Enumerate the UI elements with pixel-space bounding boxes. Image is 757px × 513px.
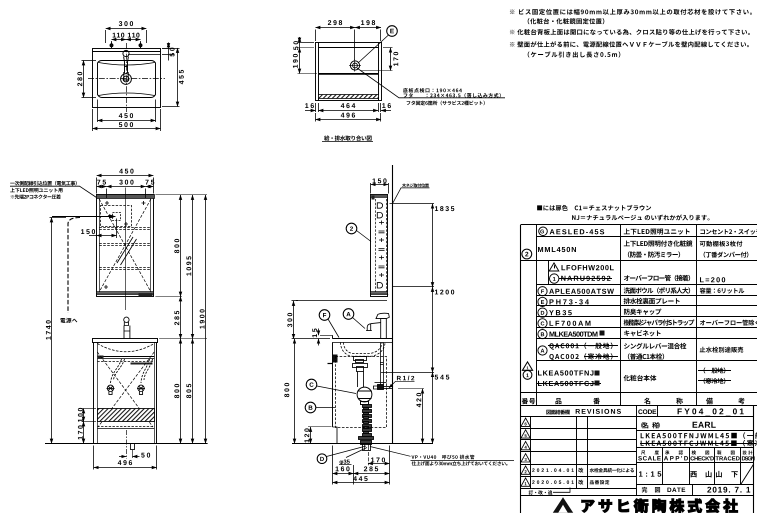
date value (707, 487, 750, 493)
part MML450N (538, 247, 576, 252)
front rail lines (97, 356, 154, 358)
dim 170 right (361, 48, 393, 71)
tri 3 (525, 458, 527, 461)
date label en (667, 488, 685, 492)
inspection port note (403, 88, 462, 93)
callout E letter (390, 29, 394, 34)
inner verticals (99, 199, 101, 292)
dim 496 front (118, 460, 132, 465)
dim 500 plan (119, 122, 133, 127)
basin rim (98, 61, 156, 98)
wall hinge blocks (372, 196, 375, 200)
remark row 2 (700, 241, 743, 247)
dim 150 front (81, 229, 95, 234)
mirror cabinet side (371, 195, 388, 297)
checker name a (690, 471, 696, 477)
piping layout plan (top-middle) (298, 26, 506, 142)
inner side walls (318, 43, 320, 102)
dim 16 left (305, 103, 314, 108)
remark L=200 (700, 277, 725, 282)
scale value (639, 471, 661, 476)
column lines (520, 225, 522, 513)
top cap band (97, 195, 155, 199)
callout C letter (310, 382, 314, 386)
dim 120 (308, 427, 332, 444)
dim 455 (179, 70, 184, 84)
company name Asahi Eito (582, 499, 738, 513)
dim 110 110 (112, 40, 141, 44)
part QAC001 (549, 343, 612, 350)
trap pipes dashed (111, 359, 153, 383)
drain fitting stack (353, 357, 368, 388)
part QAC002 (549, 353, 612, 360)
dim 170 left (83, 422, 85, 444)
dim 50 piping (293, 41, 298, 50)
dim 110 left (113, 33, 125, 38)
note 2 (510, 29, 750, 35)
number circles (522, 249, 532, 259)
rev6 kai (579, 480, 584, 485)
name plate (624, 298, 680, 304)
plus marks (104, 201, 146, 289)
note 1b (528, 18, 605, 24)
remark bowl (700, 288, 745, 294)
traced kanji (717, 450, 735, 454)
DSGN diagonal (741, 464, 754, 485)
header hinban (555, 398, 599, 404)
name cap (624, 309, 661, 315)
row G letter (540, 229, 544, 233)
row B letter (541, 332, 544, 336)
right extension lines (155, 195, 207, 339)
floor line (45, 443, 208, 445)
dim 285 (174, 311, 179, 325)
dim 50 (top right) (162, 43, 174, 61)
height 545 (435, 375, 450, 380)
dim 280 left (82, 61, 97, 98)
dim 120 (304, 428, 309, 442)
bottom board (97, 426, 154, 428)
name faucet 2 (628, 353, 664, 359)
door handle side (333, 355, 338, 363)
arrow into knockout (52, 216, 115, 218)
drain pipe note (411, 455, 474, 459)
callout A (343, 309, 365, 329)
name label (641, 422, 660, 428)
back rail line (93, 51, 161, 53)
rev6 desc (590, 480, 610, 484)
counter slab (93, 339, 158, 343)
height reference extension lines (381, 204, 434, 373)
dim 450 plan (119, 113, 133, 118)
title block (521, 405, 754, 513)
row F letter (541, 289, 544, 293)
dim 300 (292, 301, 331, 339)
dim 496 piping (341, 113, 355, 118)
mirror cabinet U2 outline (97, 195, 154, 297)
dim 496 (316, 113, 382, 122)
dim 420 (398, 389, 424, 444)
dim 445 (353, 476, 367, 481)
dim 300 side (287, 313, 292, 327)
callout A letter (346, 312, 350, 316)
wall line (392, 165, 394, 444)
interior dashed diagonals (97, 352, 154, 427)
rev5 kai (579, 468, 584, 473)
dim 150 side (373, 178, 387, 183)
dim 420 (416, 393, 421, 407)
title block latin texts (0, 0, 1, 1)
part NARU92592 (561, 276, 610, 281)
header code (638, 409, 656, 414)
dsgn kanji (743, 451, 753, 455)
part LKEA500TFCJ (538, 381, 594, 386)
dim 16/464/16 (305, 103, 391, 112)
node E callout (358, 26, 397, 63)
dim 150 (89, 219, 117, 239)
dim 75/300/75 (97, 187, 154, 199)
bottom hatch band (319, 95, 379, 99)
dim 800 lower (180, 339, 182, 444)
appd kanji (665, 451, 683, 455)
view B texts (0, 0, 1, 1)
remark trap (700, 320, 757, 326)
mirror-bottom reference line (296, 300, 387, 302)
dim 800 lower (174, 384, 179, 398)
dim 464 (341, 103, 356, 108)
dim 100 left (82, 409, 97, 422)
part YB35 (549, 310, 572, 315)
name trap (624, 319, 695, 325)
tri 6 (525, 422, 527, 425)
checker name b (706, 471, 712, 477)
dim 15 (312, 328, 317, 337)
drain stub (131, 444, 135, 450)
model name 1 (641, 432, 757, 439)
dim 455 right (162, 48, 180, 107)
rev5 desc (590, 468, 634, 472)
parts list table (right) (521, 225, 757, 513)
revision pointer L-arrow (553, 488, 570, 493)
basin curve dashed (97, 344, 154, 352)
bottom band (97, 292, 154, 294)
piping diagram title (324, 135, 372, 140)
view A dimension texts (0, 0, 1, 1)
name overflow (624, 275, 690, 281)
stop valves (107, 385, 146, 394)
faucet leader line (128, 54, 160, 56)
part LF700AM (549, 321, 590, 326)
dim 298 (328, 20, 342, 25)
traced en (715, 456, 739, 460)
scale kanji (641, 450, 659, 454)
dim 160 / 285 bottom (333, 446, 390, 485)
door colour note 1 (537, 205, 651, 211)
row2 number (525, 252, 528, 257)
callout C (306, 379, 356, 393)
dim 285 (180, 297, 182, 339)
overflow row number (553, 277, 556, 281)
remark row 2b (704, 252, 749, 258)
dim 170 bottom (368, 452, 390, 465)
product name EARL (693, 422, 716, 428)
part AESLED-45S (550, 229, 605, 234)
dim 285 side (364, 466, 378, 471)
name faucet (624, 343, 686, 349)
header revisions en (576, 409, 621, 414)
dim 160 (336, 466, 350, 471)
name body (624, 375, 657, 381)
callout B letter (309, 406, 313, 410)
dim 298 / 198 (316, 28, 382, 61)
remark faucet (700, 347, 744, 353)
R1/2 label leader (389, 381, 415, 388)
dim 170 side (371, 457, 385, 462)
mounting bolt right (139, 43, 142, 49)
basin dashed side (341, 342, 386, 356)
filled squares (door colour) (600, 331, 605, 336)
center extension line (125, 188, 127, 311)
check kanji (692, 450, 710, 454)
warning triangle (overflow row) (549, 263, 559, 271)
scale en (638, 456, 661, 460)
part APLEA500ATSW (549, 289, 614, 294)
dim 496 bottom (94, 446, 157, 470)
drain pipe note 2 (412, 461, 508, 465)
strikethrough lines (537, 279, 757, 444)
dim 280 (77, 72, 82, 86)
faucet front (124, 317, 130, 339)
tracer name a (716, 471, 722, 477)
centerline vertical (126, 43, 128, 112)
LED unit label (10, 188, 62, 193)
centerline horizontal (88, 78, 165, 80)
model name 2 (641, 440, 757, 447)
dim 800 side (284, 383, 289, 397)
dim 800 mirror (174, 239, 179, 253)
door colour note 2 (572, 215, 709, 221)
shelf marks inside (379, 221, 385, 278)
leader to notes (357, 68, 505, 98)
node 2 callout (346, 223, 371, 241)
callout 2 digit (350, 226, 353, 230)
drain hole (350, 61, 359, 70)
dim 1095 (192, 195, 194, 339)
floor flange (359, 437, 374, 451)
cabinet front edge (332, 342, 334, 427)
header revisions jp (546, 410, 569, 415)
tracer name b (731, 471, 737, 477)
name row 2 (624, 240, 693, 246)
cabinet sides (94, 342, 157, 443)
callout D + leaders (317, 446, 410, 464)
revision triangles (521, 418, 530, 486)
phi35 underline (339, 464, 352, 466)
dim 300 front (119, 180, 133, 185)
revision triangle (row 10) (522, 362, 532, 370)
dim 1900 (205, 195, 207, 444)
remark body a (704, 367, 726, 373)
company logo (553, 497, 573, 513)
name bowl (624, 287, 690, 293)
callout F (319, 310, 339, 338)
table outer + row lines (521, 224, 757, 226)
remark row G (700, 229, 757, 235)
faucet side (366, 313, 389, 339)
dim 1740 (46, 320, 51, 339)
dim 1095 (186, 256, 191, 275)
part number texts (0, 0, 1, 1)
dim 805 (186, 384, 191, 398)
tri 4 (524, 446, 526, 449)
counter outline (93, 49, 161, 108)
header meisho (644, 398, 683, 405)
row 1 number (526, 374, 528, 378)
dim 50 left (298, 37, 315, 48)
dim 1740 (50, 218, 67, 444)
basin inner front/back curves (99, 63, 155, 66)
lid fixing note (407, 101, 485, 106)
rev6 date (532, 480, 574, 484)
view C dimension texts (0, 0, 1, 1)
view D texts (0, 0, 1, 1)
callout F letter (323, 313, 326, 317)
callout D letter (320, 457, 324, 461)
dim 300 (106, 29, 147, 44)
dim 300 plan (119, 21, 133, 26)
callout B (305, 402, 335, 413)
header biko (706, 398, 744, 405)
dim 50 bottom (119, 456, 140, 458)
dim 1900 (200, 309, 205, 328)
tri 1 (525, 482, 527, 485)
lid note (404, 93, 501, 98)
wood screw label underline + leader (392, 188, 429, 204)
shelf dashed lines (99, 228, 151, 270)
dim 805 (192, 339, 194, 444)
dim 800 side (292, 339, 330, 444)
note 1 (510, 9, 752, 15)
remark body b (704, 378, 726, 384)
dim 450 (98, 100, 156, 123)
door swing dashed diagonals (99, 199, 151, 292)
to power label (60, 318, 77, 323)
check en (690, 456, 714, 460)
dim 75 left (97, 180, 106, 185)
mounting bolt left (110, 43, 113, 49)
dim 100 (78, 408, 83, 422)
name cabinet (624, 330, 661, 336)
part PH73-34 (549, 299, 588, 304)
appd en (664, 456, 688, 460)
rev footer (529, 490, 553, 494)
wiring knockout dashed box (101, 206, 132, 227)
dim 450 front (119, 169, 133, 174)
row E letter (541, 300, 544, 304)
dim 16 right (382, 103, 391, 108)
mid shelf line (319, 73, 379, 75)
primary wiring label (10, 181, 77, 186)
floor line right (292, 443, 433, 445)
dim 110 right (128, 33, 140, 38)
counter side (333, 338, 393, 340)
height 1200 (435, 290, 454, 295)
note 3b (528, 51, 621, 57)
label leader (primary wiring) (10, 186, 97, 197)
drain flange (121, 74, 132, 85)
dim 50 bottom (141, 453, 150, 458)
row C letter (541, 321, 545, 325)
cabinet hidden outline dashed (336, 357, 387, 428)
height dims 1835/1200/545 (432, 204, 434, 444)
supply valve R1/2 (374, 383, 393, 390)
date label kanji (642, 487, 660, 493)
dim 198 (361, 20, 375, 25)
wood screw label (402, 183, 429, 187)
dim 190 left (298, 48, 318, 74)
cabinet outline (316, 43, 382, 101)
dim 450 top (97, 176, 154, 194)
part LFOFHW200L (561, 265, 613, 270)
dim 150 top (outside arrows) (371, 183, 389, 194)
dim 15 (outside arrows) (319, 329, 333, 346)
inner back line (319, 47, 379, 49)
S-trap body (357, 387, 372, 404)
row D letter (541, 311, 544, 315)
supply pipe (380, 343, 384, 385)
dim 50 plan (170, 48, 175, 57)
name row 2b (628, 251, 680, 257)
row A letter (541, 349, 545, 353)
tri parts 1 (527, 367, 529, 370)
VP note underline (411, 460, 515, 462)
corrugated jabara pipe (363, 405, 372, 437)
dim 75 right (145, 180, 154, 185)
dim 500 (93, 109, 161, 131)
dsgn en (742, 456, 755, 460)
height 1835 (435, 206, 454, 211)
side elevation (middle) (292, 165, 515, 485)
tri 5 (525, 434, 527, 437)
code number (678, 408, 744, 415)
part LKEA500TFNJ (538, 370, 594, 375)
hatched shelf (98, 409, 155, 422)
LED unit tiny label (139, 294, 153, 297)
handle bumps (377, 203, 382, 208)
front elevation (left) (10, 176, 208, 470)
label R1/2 (397, 376, 414, 381)
dim 190 (293, 54, 298, 68)
dim 170 front (78, 425, 83, 439)
door dashed lines (375, 199, 377, 292)
header bango (522, 398, 535, 404)
part MLKEA500TDM (549, 332, 597, 337)
dim 800 mirror (180, 195, 182, 297)
dim 445 bottom (333, 482, 390, 484)
mirror glass symbol double slash (117, 237, 133, 263)
washbasin plan view (top-left) (82, 29, 180, 132)
note 3 (510, 41, 749, 47)
label phi35 (340, 460, 350, 465)
faucet body (123, 50, 129, 56)
name row G (624, 228, 690, 234)
rev5 date (532, 468, 574, 472)
dim 170 piping (393, 52, 398, 66)
wire to power (68, 218, 80, 314)
tri 2 (525, 470, 527, 473)
connector label (11, 194, 61, 199)
